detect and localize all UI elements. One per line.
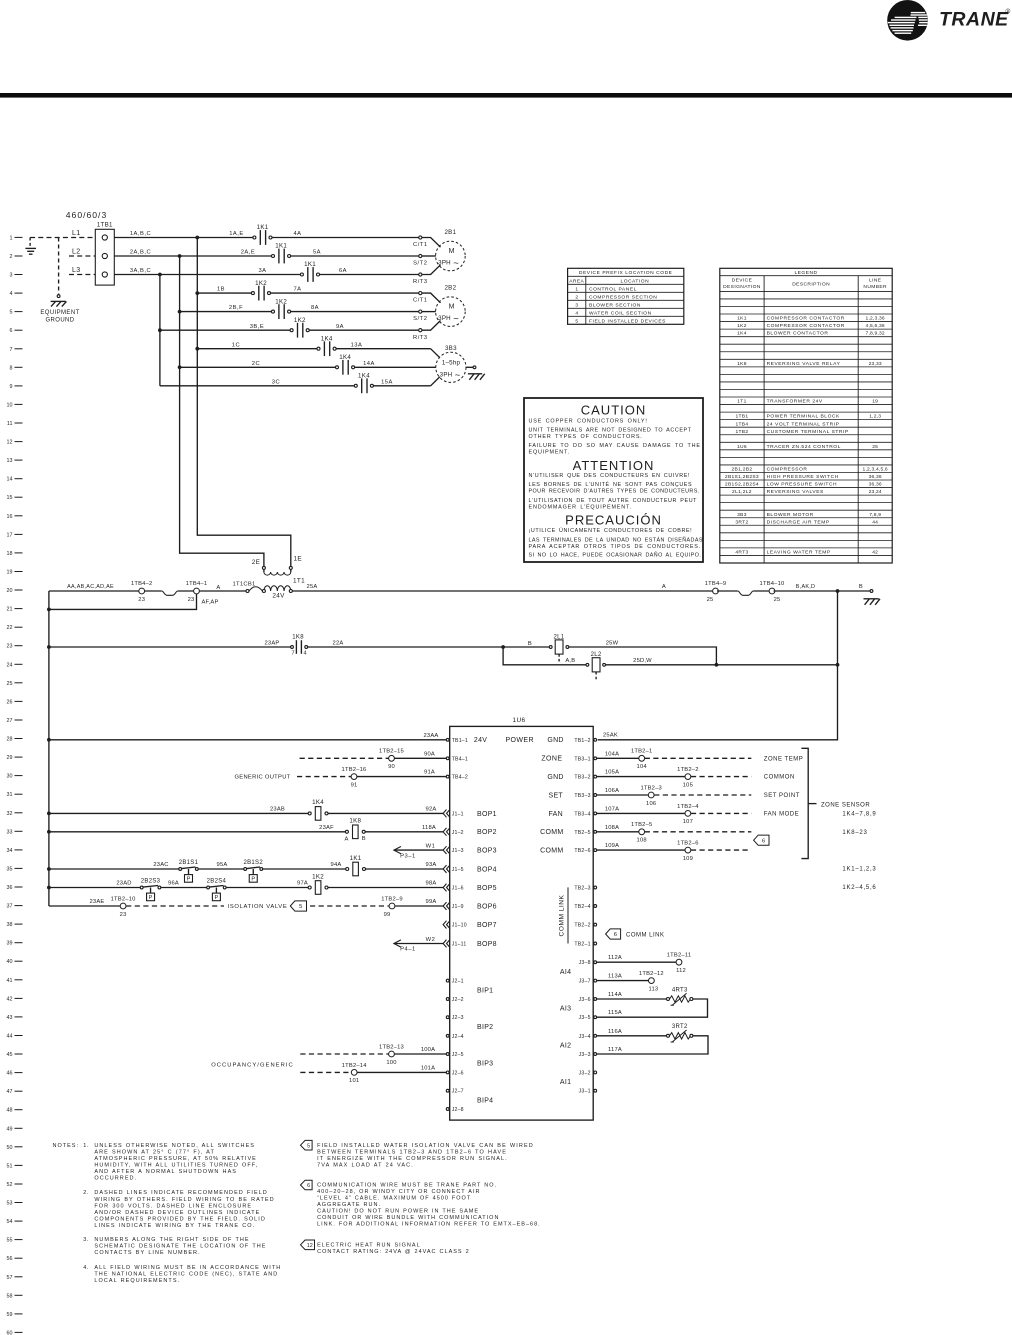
wire 90A with 1TB2-15 (line 29) — [300, 749, 447, 770]
svg-text:41: 41 — [7, 978, 13, 984]
svg-text:112: 112 — [676, 968, 686, 974]
svg-text:22A: 22A — [333, 641, 344, 647]
svg-text:3RT2: 3RT2 — [735, 519, 748, 525]
wire line 37 dashed right with 1TB2-9 — [310, 896, 443, 917]
svg-text:3PH: 3PH — [438, 260, 451, 267]
svg-text:FAN MODE: FAN MODE — [764, 811, 799, 817]
wire AF,AP (line 21) — [49, 594, 197, 609]
svg-text:AI2: AI2 — [560, 1042, 571, 1049]
svg-text:OTHER TYPES OF CONDUCTORS.: OTHER TYPES OF CONDUCTORS. — [529, 434, 643, 440]
svg-text:94A: 94A — [331, 862, 342, 868]
svg-text:R/T3: R/T3 — [413, 279, 428, 285]
1U6 label BIP1 — [477, 987, 493, 994]
terminal TB2-6 (pin circle) — [574, 848, 596, 854]
svg-text:LINK. FOR ADDITIONAL INFORMATI: LINK. FOR ADDITIONAL INFORMATION REFER T… — [317, 1222, 541, 1228]
wire 118A (line 33) — [365, 825, 443, 832]
svg-text:24V: 24V — [474, 737, 487, 744]
svg-text:1.: 1. — [83, 1143, 88, 1149]
svg-text:BIP2: BIP2 — [477, 1024, 493, 1031]
terminal J2-4 (pin circle) — [446, 1034, 463, 1040]
svg-text:CONDUIT OR WIRE BUNDLE WITH CO: CONDUIT OR WIRE BUNDLE WITH COMMUNICATIO… — [317, 1215, 499, 1221]
svg-text:~: ~ — [453, 314, 459, 325]
note 3 — [83, 1237, 266, 1256]
svg-text:1,2,3: 1,2,3 — [869, 414, 881, 420]
svg-text:113A: 113A — [608, 974, 622, 980]
svg-text:AF,AP: AF,AP — [201, 599, 218, 605]
terminal J1-9 (plug) — [443, 902, 464, 910]
svg-text:LEGEND: LEGEND — [794, 270, 817, 276]
svg-text:7: 7 — [10, 347, 13, 353]
svg-text:5: 5 — [307, 1143, 310, 1149]
supply label 460/60/3 — [66, 210, 107, 220]
svg-text:15: 15 — [7, 495, 13, 501]
svg-text:BOP2: BOP2 — [477, 829, 497, 836]
svg-text:2: 2 — [575, 294, 578, 300]
svg-text:BIP3: BIP3 — [477, 1061, 493, 1068]
svg-text:90: 90 — [388, 764, 395, 770]
svg-text:3PH: 3PH — [438, 315, 451, 322]
contactor contact 1K2 line 5 — [272, 298, 291, 319]
compressor motor 2B2 — [436, 285, 466, 327]
caution/attention/precaucion box — [524, 398, 703, 562]
wire 96A (line 36) — [161, 881, 207, 888]
contactor contact 1K4 line 8 — [336, 354, 355, 375]
svg-text:117A: 117A — [608, 1047, 622, 1053]
controller 1U6 box — [450, 717, 594, 1120]
wire W2 to P4-1 (line 39) — [394, 937, 443, 953]
svg-text:22: 22 — [7, 625, 13, 631]
terminal J3-5 (pin circle) — [579, 1015, 597, 1021]
svg-text:1TB2–13: 1TB2–13 — [379, 1044, 404, 1050]
wire L3 — [69, 267, 95, 275]
svg-text:18: 18 — [7, 551, 13, 557]
svg-text:REVERSING VALVE RELAY: REVERSING VALVE RELAY — [767, 361, 841, 367]
svg-text:THE NATIONAL ELECTRIC CODE (NE: THE NATIONAL ELECTRIC CODE (NEC), STATE … — [94, 1271, 278, 1277]
wire row 8 feeder — [180, 361, 336, 367]
svg-text:LEAVING WATER TEMP: LEAVING WATER TEMP — [767, 550, 831, 556]
wire 105A to 1TB2-2 (line 30) — [597, 767, 795, 788]
svg-text:96A: 96A — [168, 881, 179, 887]
svg-text:106: 106 — [646, 801, 656, 807]
svg-text:TRACER ZN.524 CONTROL: TRACER ZN.524 CONTROL — [767, 444, 841, 450]
low pressure switch 2B2S4 (line 36) — [207, 878, 227, 901]
motor lead line 4 — [422, 293, 441, 303]
wire L2 — [69, 248, 95, 256]
svg-text:2B,F: 2B,F — [229, 305, 243, 311]
svg-text:14: 14 — [7, 477, 13, 483]
terminal J3-7 (pin circle) — [579, 979, 597, 985]
svg-text:460/60/3: 460/60/3 — [66, 210, 107, 220]
svg-text:30: 30 — [7, 774, 13, 780]
svg-text:R/T3: R/T3 — [413, 335, 428, 341]
legend table — [720, 268, 892, 563]
svg-text:400–20–28, OR WINDY CITY OR CO: 400–20–28, OR WINDY CITY OR CONNECT AIR — [317, 1189, 480, 1195]
svg-text:1K2: 1K2 — [737, 323, 747, 329]
svg-text:99: 99 — [384, 912, 391, 918]
svg-text:J1–2: J1–2 — [452, 830, 464, 836]
wire W1 to P3-1 (line 34) — [394, 844, 443, 860]
svg-text:91: 91 — [351, 782, 358, 788]
svg-text:60: 60 — [7, 1330, 13, 1335]
svg-text:16: 16 — [7, 514, 13, 520]
svg-text:PRECAUCIÓN: PRECAUCIÓN — [565, 513, 662, 528]
wire 97A (line 36) — [226, 881, 308, 888]
svg-text:36,36: 36,36 — [869, 474, 882, 480]
svg-text:®: ® — [1006, 8, 1011, 16]
svg-text:AA,AB,AC,AD,AE: AA,AB,AC,AD,AE — [67, 584, 114, 590]
motor lead line 6 — [422, 321, 441, 331]
svg-text:4A: 4A — [293, 231, 301, 237]
svg-text:M: M — [449, 304, 455, 311]
transformer 1T1 — [252, 556, 305, 600]
svg-text:23: 23 — [7, 644, 13, 650]
svg-text:101: 101 — [349, 1078, 359, 1084]
svg-text:31: 31 — [7, 792, 13, 798]
svg-text:J3–6: J3–6 — [579, 997, 591, 1003]
svg-text:107: 107 — [683, 819, 693, 825]
terminal 1TB4-2 — [131, 581, 153, 603]
svg-text:25AK: 25AK — [603, 733, 618, 739]
svg-text:CONTACTS BY LINE NUMBER.: CONTACTS BY LINE NUMBER. — [94, 1250, 200, 1256]
terminal J3-2 (pin circle) — [579, 1070, 597, 1076]
wire row 6 feeder — [160, 324, 290, 330]
svg-text:1B: 1B — [217, 287, 225, 293]
terminal TB3-4 (pin circle) — [574, 811, 596, 817]
svg-text:3B3: 3B3 — [737, 512, 747, 518]
motor lead line 1 — [422, 238, 441, 248]
svg-text:24: 24 — [7, 662, 13, 668]
svg-text:1TB2–10: 1TB2–10 — [111, 896, 136, 902]
svg-text:1K4: 1K4 — [358, 373, 370, 380]
svg-text:3B3: 3B3 — [445, 345, 457, 352]
svg-text:USE COPPER CONDUCTORS ONLY!: USE COPPER CONDUCTORS ONLY! — [529, 418, 648, 424]
wire L1 — [30, 230, 95, 238]
svg-text:ENDOMMAGER L’ÉQUIPEMENT.: ENDOMMAGER L’ÉQUIPEMENT. — [529, 503, 632, 510]
1U6 label SET — [548, 792, 563, 799]
svg-text:12: 12 — [7, 440, 13, 446]
svg-text:3.: 3. — [83, 1237, 88, 1243]
equipment ground drop + symbol — [40, 238, 79, 324]
chassis ground right of line 20 — [864, 599, 881, 605]
svg-text:A: A — [216, 585, 220, 591]
line-number ruler — [7, 235, 23, 1335]
reversing valve 2L2 — [586, 652, 605, 681]
motor lead line 9 — [431, 377, 440, 386]
svg-text:AREA: AREA — [569, 278, 584, 284]
svg-text:6: 6 — [614, 932, 617, 938]
svg-text:2B1S2: 2B1S2 — [243, 860, 263, 866]
svg-text:23AD: 23AD — [116, 881, 131, 887]
svg-text:23AP: 23AP — [265, 641, 280, 647]
svg-text:DESCRIPTION: DESCRIPTION — [792, 281, 830, 287]
wire row 7 feeder — [197, 342, 317, 348]
svg-text:54: 54 — [7, 1219, 13, 1225]
svg-text:1K4: 1K4 — [321, 335, 333, 342]
svg-text:TB1–2: TB1–2 — [574, 738, 590, 744]
svg-text:J2–7: J2–7 — [452, 1089, 464, 1095]
svg-text:CONTACT RATING: 24VA @ 24VAC C: CONTACT RATING: 24VA @ 24VAC CLASS 2 — [317, 1249, 470, 1255]
wire 98A (line 36) — [328, 881, 443, 888]
contactor contact 1K2 line 4 — [251, 280, 270, 301]
1U6 label AI2 — [560, 1042, 571, 1049]
svg-text:POWER TERMINAL BLOCK: POWER TERMINAL BLOCK — [767, 414, 840, 420]
svg-text:FAILURE TO DO SO MAY CAUSE DAM: FAILURE TO DO SO MAY CAUSE DAMAGE TO THE — [529, 443, 701, 449]
note tag 5 (line 37) — [290, 901, 306, 911]
svg-text:L3: L3 — [72, 267, 81, 274]
svg-text:GENERIC OUTPUT: GENERIC OUTPUT — [234, 775, 290, 781]
svg-text:AI3: AI3 — [560, 1006, 571, 1013]
svg-text:1T1: 1T1 — [737, 399, 746, 405]
svg-text:1TB2–1: 1TB2–1 — [631, 749, 653, 755]
svg-text:COMMUNICATION WIRE MUST BE TRA: COMMUNICATION WIRE MUST BE TRANE PART NO… — [317, 1182, 497, 1188]
terminal J1-6 (plug) — [443, 884, 464, 892]
svg-text:29: 29 — [7, 755, 13, 761]
terminal TB2-2 (pin circle) — [574, 923, 596, 929]
svg-text:L2: L2 — [72, 248, 81, 255]
svg-text:W2: W2 — [426, 937, 436, 943]
contactor contact 1K1 line 2 — [272, 243, 291, 264]
svg-text:GND: GND — [547, 737, 563, 744]
svg-text:2B2S3: 2B2S3 — [141, 878, 161, 884]
svg-text:4.: 4. — [83, 1265, 88, 1271]
note tag 5 text — [301, 1140, 534, 1168]
svg-text:20: 20 — [7, 588, 13, 594]
svg-text:1K8–23: 1K8–23 — [842, 830, 867, 836]
svg-text:1U6: 1U6 — [513, 717, 526, 724]
svg-text:24 VOLT TERMINAL STRIP: 24 VOLT TERMINAL STRIP — [767, 421, 840, 427]
svg-text:DISCHARGE AIR TEMP: DISCHARGE AIR TEMP — [767, 519, 830, 525]
svg-text:BIP4: BIP4 — [477, 1097, 493, 1104]
terminal J1-3 (plug) — [443, 846, 464, 854]
svg-text:“LEVEL 4” CABLE. MAXIMUM OF 45: “LEVEL 4” CABLE. MAXIMUM OF 4500 FOOT — [317, 1196, 471, 1202]
svg-text:FIELD INSTALLED WATER ISOLATIO: FIELD INSTALLED WATER ISOLATION VALVE CA… — [317, 1143, 534, 1149]
svg-text:AND/OR DASHED DEVICE OUTLINES: AND/OR DASHED DEVICE OUTLINES INDICATE — [94, 1210, 260, 1216]
svg-text:1TB1: 1TB1 — [736, 414, 749, 420]
svg-text:NUMBER: NUMBER — [863, 284, 887, 290]
wire row 4 feeder — [197, 287, 251, 293]
contactor contact 1K1 line 1 — [253, 224, 272, 245]
svg-text:NOTES:: NOTES: — [53, 1143, 79, 1149]
svg-text:1TB2–9: 1TB2–9 — [381, 896, 403, 902]
svg-text:23AA: 23AA — [424, 733, 439, 739]
svg-text:2B1S1: 2B1S1 — [179, 860, 199, 866]
svg-text:J1–9: J1–9 — [452, 904, 464, 910]
svg-text:LINES INDICATE WIRING BY THE T: LINES INDICATE WIRING BY THE TRANE CO. — [94, 1223, 255, 1229]
svg-text:TB1–1: TB1–1 — [452, 738, 468, 744]
svg-text:2C: 2C — [252, 361, 260, 367]
svg-text:1TB2–12: 1TB2–12 — [639, 971, 664, 977]
terminal TB4-2 (pin circle) — [446, 775, 468, 781]
terminal TB2-3 (pin circle) — [574, 886, 596, 892]
svg-text:COMPRESSOR SECTION: COMPRESSOR SECTION — [589, 294, 657, 300]
svg-text:P: P — [187, 877, 191, 883]
svg-text:TB2–2: TB2–2 — [574, 923, 590, 929]
terminal J3-1 (pin circle) — [579, 1089, 597, 1095]
wire 92A (line 32) — [328, 806, 443, 813]
svg-text:REVERSING VALVES: REVERSING VALVES — [767, 489, 824, 495]
svg-text:CAUTION! DO NOT RUN POWER IN T: CAUTION! DO NOT RUN POWER IN THE SAME — [317, 1209, 479, 1215]
wire 23AD (line 36) — [49, 881, 140, 888]
phase bus A (lines 1,4,7 to 1E) — [195, 236, 290, 567]
wire 101A with 1TB2-14 (line 46) — [211, 1062, 446, 1084]
svg-text:4: 4 — [10, 291, 13, 297]
svg-text:SET: SET — [548, 792, 563, 799]
svg-text:25: 25 — [707, 597, 714, 603]
svg-text:25: 25 — [774, 597, 781, 603]
svg-text:1K1: 1K1 — [257, 224, 269, 231]
svg-text:4: 4 — [575, 310, 578, 316]
contact location notes right side — [842, 867, 876, 891]
1U6 COMM LINK bracket — [559, 887, 569, 943]
svg-text:TRANE: TRANE — [939, 9, 1009, 31]
svg-text:8A: 8A — [311, 305, 319, 311]
1U6 label AI3 — [560, 1006, 571, 1013]
svg-text:53: 53 — [7, 1201, 13, 1207]
svg-text:44: 44 — [872, 519, 878, 525]
svg-text:B: B — [859, 584, 863, 590]
svg-text:TB2–6: TB2–6 — [574, 848, 590, 854]
svg-text:46: 46 — [7, 1071, 13, 1077]
wire 4RT3 loop to line 43 — [597, 999, 708, 1017]
svg-text:FOR 300 VOLTS. DASHED LINE ENC: FOR 300 VOLTS. DASHED LINE ENCLOSURE — [94, 1203, 252, 1209]
1U6 label ZONE — [541, 756, 562, 763]
svg-text:OCCURRED.: OCCURRED. — [94, 1176, 137, 1182]
svg-text:1K4: 1K4 — [737, 331, 747, 337]
svg-text:1T1: 1T1 — [293, 578, 305, 585]
svg-text:J3–1: J3–1 — [579, 1089, 591, 1095]
wire 116A (line 44) — [597, 1029, 667, 1036]
svg-text:COMM LINK: COMM LINK — [626, 932, 665, 938]
wire row 5 to motor — [291, 305, 419, 311]
svg-text:13A: 13A — [351, 342, 363, 348]
svg-text:2.: 2. — [83, 1190, 88, 1196]
svg-text:109A: 109A — [605, 843, 619, 849]
svg-text:7,8,9: 7,8,9 — [869, 512, 881, 518]
svg-text:A: A — [662, 584, 666, 590]
wire line 24 (A,B) — [503, 647, 586, 665]
svg-text:1TB2–6: 1TB2–6 — [677, 841, 699, 847]
svg-text:BETWEEN TERMINALS 1TB2–3 AND 1: BETWEEN TERMINALS 1TB2–3 AND 1TB2–6 TO H… — [317, 1149, 507, 1155]
svg-text:P4–1: P4–1 — [400, 947, 416, 953]
svg-text:1TB4–1: 1TB4–1 — [186, 581, 208, 587]
svg-text:SI NO LO HACE, PUEDE OCASIONAR: SI NO LO HACE, PUEDE OCASIONAR DAÑO AL E… — [529, 552, 702, 559]
1U6 label BIP4 — [477, 1097, 493, 1104]
svg-text:19: 19 — [7, 570, 13, 576]
terminal J1-10 (plug) — [443, 921, 467, 929]
terminal J1-2 (plug) — [443, 828, 464, 836]
terminal J1-1 (plug) — [443, 810, 464, 818]
motor terminal R/T3 line 3 — [413, 273, 428, 285]
svg-text:3PH: 3PH — [440, 371, 453, 378]
svg-text:1TB1: 1TB1 — [97, 222, 113, 229]
svg-text:P: P — [149, 895, 153, 901]
svg-text:AND AFTER A NORMAL SHUTDOWN HA: AND AFTER A NORMAL SHUTDOWN HAS — [94, 1169, 237, 1175]
svg-text:101A: 101A — [421, 1065, 435, 1071]
wire 23AB (line 32) — [49, 806, 308, 813]
wire 100A with 1TB2-13 (line 45) — [300, 1044, 446, 1065]
terminal 1TB4-1 — [186, 581, 219, 605]
svg-text:11: 11 — [7, 421, 13, 427]
notes heading and note 1 — [53, 1143, 259, 1182]
svg-text:POWER: POWER — [505, 737, 533, 744]
wire 23AF (line 33) — [49, 825, 346, 832]
svg-text:AGGREGATE RUN.: AGGREGATE RUN. — [317, 1202, 381, 1208]
svg-text:9: 9 — [10, 384, 13, 390]
svg-text:TB3–2: TB3–2 — [574, 775, 590, 781]
1U6 label COMM (2) — [540, 848, 563, 855]
svg-text:6: 6 — [10, 328, 13, 334]
svg-text:GND: GND — [547, 774, 563, 781]
svg-text:105: 105 — [683, 782, 693, 788]
svg-text:WATER COIL SECTION: WATER COIL SECTION — [589, 310, 652, 316]
svg-text:51: 51 — [7, 1163, 13, 1169]
svg-text:4,5,6,36: 4,5,6,36 — [866, 323, 885, 329]
motor terminal S/T2 line 5 — [413, 310, 427, 322]
svg-text:FAN: FAN — [548, 811, 563, 818]
svg-text:J2–6: J2–6 — [452, 1070, 464, 1076]
contactor contact 1K4 line 9 — [354, 373, 373, 394]
svg-text:1K1: 1K1 — [737, 316, 747, 322]
wire 104A to 1TB2-1 (line 29) — [597, 749, 804, 770]
terminal TB2-5 (pin circle) — [574, 830, 596, 836]
svg-text:2B1,2B2: 2B1,2B2 — [732, 467, 753, 473]
svg-text:LES BORNES DE L’UNITÉ NE SONT: LES BORNES DE L’UNITÉ NE SONT PAS CONÇUE… — [529, 481, 693, 488]
svg-text:4RT3: 4RT3 — [735, 550, 748, 556]
svg-text:1,2,3,36: 1,2,3,36 — [866, 316, 885, 322]
device prefix location code table — [568, 268, 684, 324]
relay contact 1K8 line 23 — [291, 635, 308, 657]
svg-text:45: 45 — [7, 1052, 13, 1058]
compressor motor 2B1 — [436, 229, 466, 271]
motor lead line 5 — [422, 311, 436, 313]
svg-text:3A,B,C: 3A,B,C — [130, 268, 151, 274]
svg-text:97A: 97A — [297, 881, 308, 887]
svg-text:8: 8 — [10, 365, 13, 371]
svg-text:UNLESS OTHERWISE NOTED, ALL SW: UNLESS OTHERWISE NOTED, ALL SWITCHES — [94, 1143, 255, 1149]
wire 112A with 1TB2-11 (line 40) — [597, 953, 692, 974]
terminal J2-7 (pin circle) — [446, 1089, 463, 1095]
note tag 12 text — [301, 1240, 470, 1255]
terminal TB3-3 (pin circle) — [574, 793, 596, 799]
svg-text:SET POINT: SET POINT — [764, 793, 800, 799]
svg-text:COMM: COMM — [540, 848, 563, 855]
wire 93A (line 35) — [366, 862, 444, 869]
svg-text:J1–3: J1–3 — [452, 848, 464, 854]
wire 108A to 1TB2-5 (line 33) — [597, 822, 752, 843]
1U6 label AI4 — [560, 969, 571, 976]
1U6 label GND (power) — [547, 737, 563, 744]
svg-text:A,B: A,B — [565, 658, 575, 664]
terminal J2-3 (pin circle) — [446, 1015, 463, 1021]
svg-text:LAS TERMINALES DE LA UNIDAD NO: LAS TERMINALES DE LA UNIDAD NO ESTÁN DIS… — [529, 536, 703, 543]
1U6 label BIP3 — [477, 1061, 493, 1068]
svg-text:25: 25 — [872, 444, 878, 450]
svg-text:J3–4: J3–4 — [579, 1034, 591, 1040]
svg-text:28: 28 — [7, 737, 13, 743]
terminal TB2-4 (pin circle) — [574, 904, 596, 910]
wire row 7 to blower motor — [336, 342, 431, 348]
note 2 — [83, 1190, 274, 1229]
svg-text:1: 1 — [10, 235, 13, 241]
svg-text:ZONE: ZONE — [541, 756, 562, 763]
wire row 9 to blower motor — [373, 379, 430, 385]
svg-text:49: 49 — [7, 1126, 13, 1132]
terminal TB1-1 (pin circle) — [446, 738, 468, 744]
svg-text:21: 21 — [7, 607, 13, 613]
1U6 label BOP3 — [477, 848, 497, 855]
svg-text:1K1–1,2,3: 1K1–1,2,3 — [842, 867, 876, 873]
svg-text:1–5hp: 1–5hp — [442, 360, 461, 367]
